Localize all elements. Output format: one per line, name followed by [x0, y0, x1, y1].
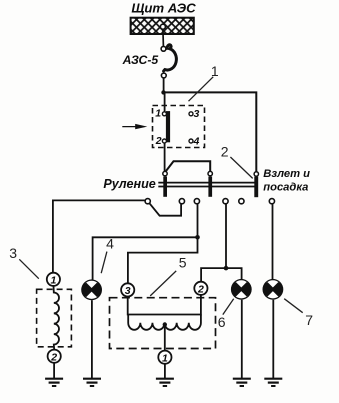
svg-text:2: 2 [221, 143, 229, 159]
svg-text:1: 1 [211, 63, 219, 79]
svg-text:Руление: Руление [103, 177, 155, 191]
svg-text:2: 2 [50, 351, 57, 363]
svg-text:7: 7 [305, 312, 313, 328]
svg-text:Взлет и: Взлет и [263, 168, 310, 180]
svg-text:5: 5 [179, 254, 187, 270]
svg-text:Щит АЭС: Щит АЭС [131, 0, 196, 15]
svg-text:3: 3 [194, 108, 200, 120]
svg-text:6: 6 [218, 314, 226, 330]
svg-text:1: 1 [155, 107, 161, 119]
svg-text:3: 3 [9, 245, 17, 261]
svg-text:1: 1 [50, 274, 56, 286]
svg-text:4: 4 [193, 136, 200, 148]
svg-text:АЗС-5: АЗС-5 [122, 53, 159, 67]
svg-text:2: 2 [197, 283, 204, 295]
svg-text:1: 1 [162, 352, 168, 364]
svg-text:2: 2 [155, 135, 162, 147]
svg-text:4: 4 [106, 236, 114, 252]
svg-text:посадка: посадка [263, 182, 308, 194]
svg-text:3: 3 [125, 285, 131, 297]
